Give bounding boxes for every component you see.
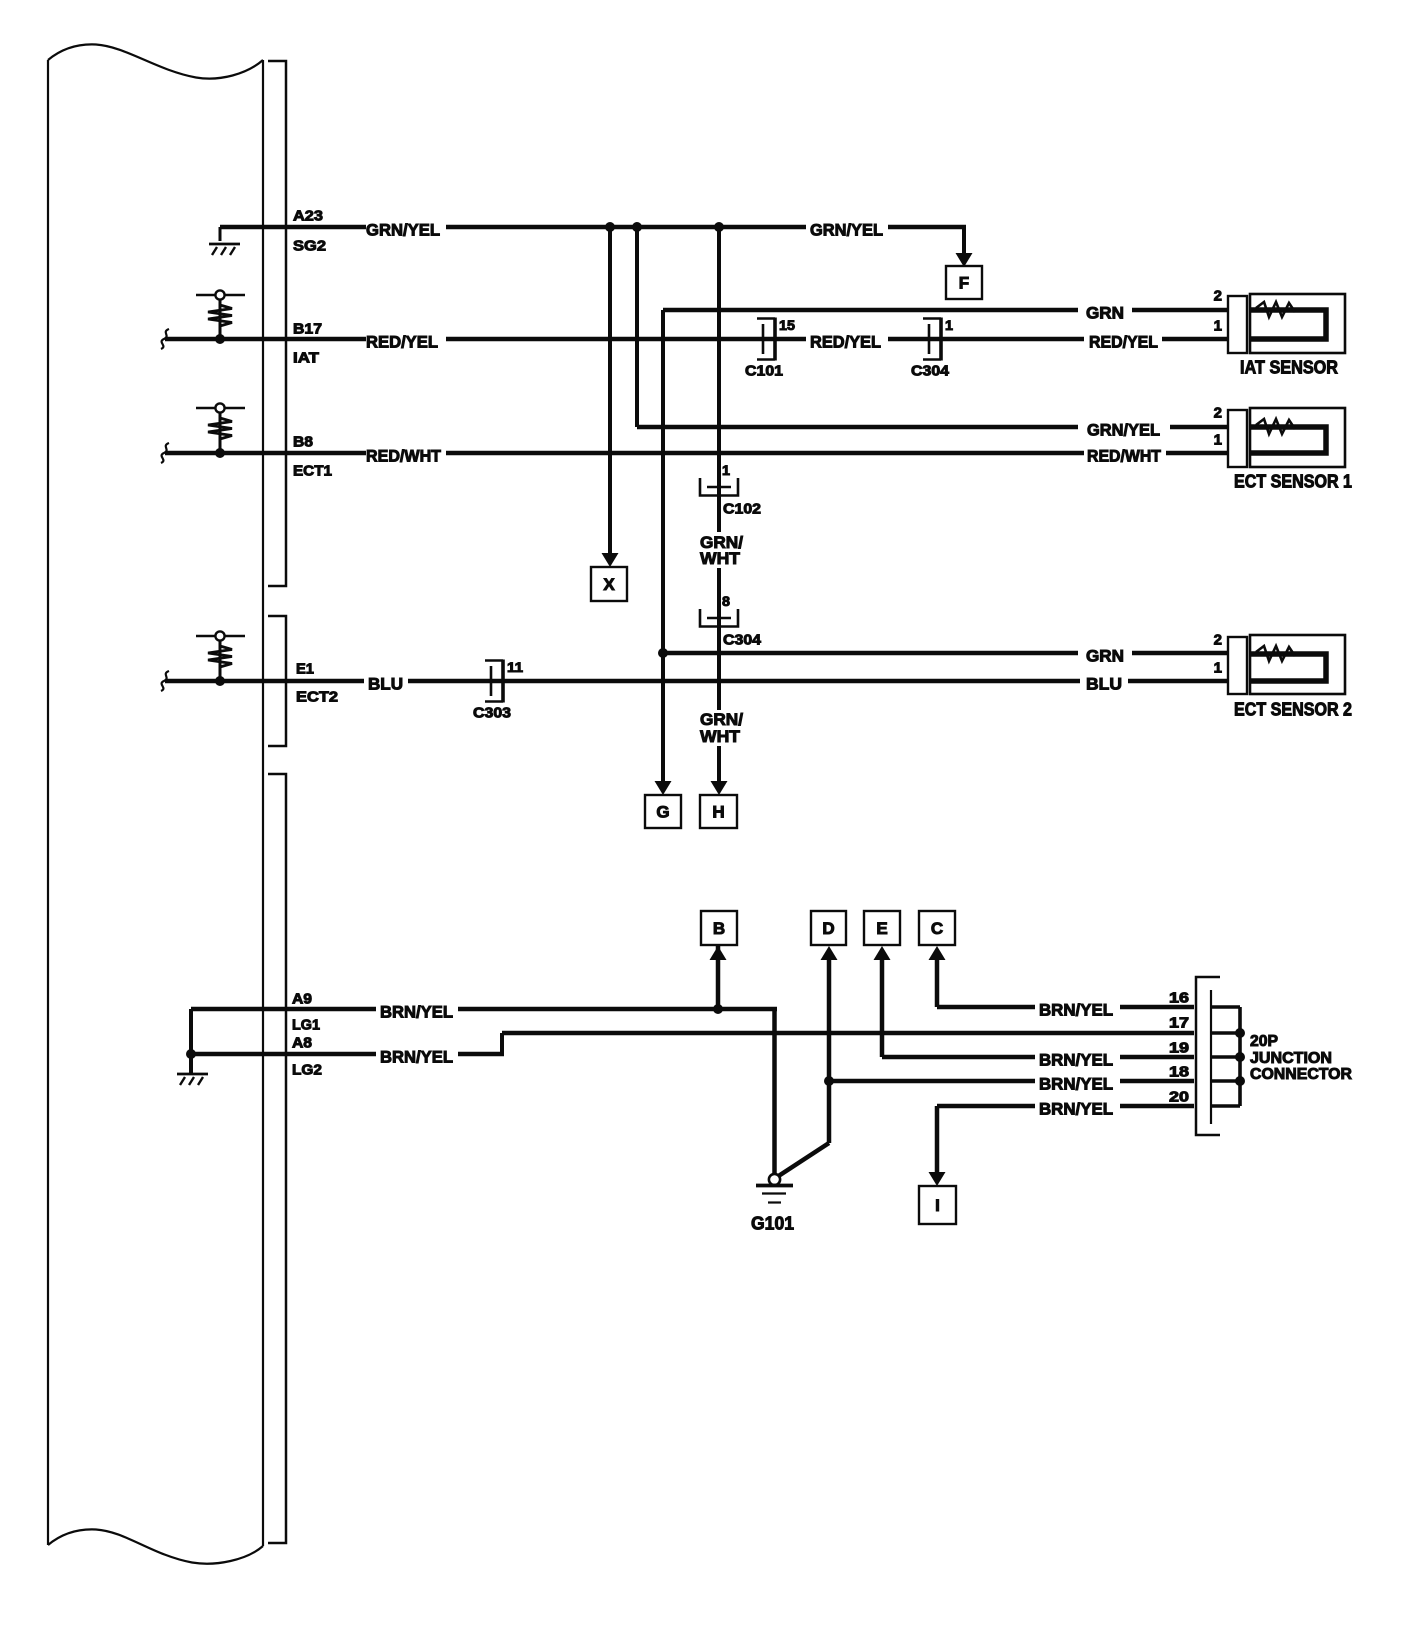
svg-text:GRN: GRN <box>1086 647 1124 666</box>
svg-text:BRN/YEL: BRN/YEL <box>1039 1100 1113 1119</box>
svg-text:20P: 20P <box>1250 1033 1278 1050</box>
svg-text:2: 2 <box>1214 287 1222 304</box>
svg-text:H: H <box>712 803 724 822</box>
svg-text:C304: C304 <box>723 631 762 648</box>
svg-text:C303: C303 <box>473 704 511 721</box>
svg-text:C102: C102 <box>723 500 761 517</box>
svg-text:C101: C101 <box>745 362 783 379</box>
svg-text:C304: C304 <box>911 362 950 379</box>
svg-text:17: 17 <box>1169 1014 1189 1031</box>
svg-text:A8: A8 <box>292 1034 312 1051</box>
svg-text:1: 1 <box>1214 431 1222 448</box>
svg-text:BLU: BLU <box>1086 675 1122 694</box>
svg-text:CONNECTOR: CONNECTOR <box>1250 1066 1352 1083</box>
svg-text:LG1: LG1 <box>292 1016 320 1033</box>
svg-text:16: 16 <box>1169 989 1189 1006</box>
svg-text:SG2: SG2 <box>293 237 326 254</box>
svg-text:15: 15 <box>779 317 795 333</box>
svg-text:RED/YEL: RED/YEL <box>810 333 881 352</box>
svg-text:G: G <box>656 803 669 822</box>
svg-text:F: F <box>959 274 969 293</box>
svg-text:1: 1 <box>722 462 730 478</box>
svg-text:BRN/YEL: BRN/YEL <box>1039 1051 1113 1070</box>
svg-text:BRN/YEL: BRN/YEL <box>380 1003 453 1022</box>
svg-text:ECT SENSOR 1: ECT SENSOR 1 <box>1234 472 1352 492</box>
svg-text:BLU: BLU <box>368 675 403 694</box>
svg-text:19: 19 <box>1169 1039 1189 1056</box>
svg-text:B: B <box>713 919 725 938</box>
svg-text:1: 1 <box>945 317 953 333</box>
svg-text:1: 1 <box>1214 659 1222 676</box>
svg-text:WHT: WHT <box>700 727 741 746</box>
svg-text:RED/YEL: RED/YEL <box>1089 333 1158 352</box>
svg-text:2: 2 <box>1214 631 1222 648</box>
svg-text:A9: A9 <box>292 990 312 1007</box>
svg-text:1: 1 <box>1214 317 1222 334</box>
svg-text:RED/YEL: RED/YEL <box>366 333 438 352</box>
svg-text:GRN/YEL: GRN/YEL <box>366 221 440 240</box>
svg-text:B8: B8 <box>293 433 313 450</box>
svg-text:LG2: LG2 <box>292 1061 322 1078</box>
svg-text:ECT2: ECT2 <box>296 688 338 705</box>
svg-text:18: 18 <box>1169 1063 1189 1080</box>
svg-text:GRN/YEL: GRN/YEL <box>810 221 883 240</box>
svg-text:11: 11 <box>507 659 523 675</box>
svg-text:JUNCTION: JUNCTION <box>1250 1050 1332 1067</box>
svg-text:ECT SENSOR 2: ECT SENSOR 2 <box>1234 700 1352 720</box>
svg-text:IAT SENSOR: IAT SENSOR <box>1240 358 1338 378</box>
svg-text:BRN/YEL: BRN/YEL <box>1039 1075 1113 1094</box>
svg-text:C: C <box>931 919 943 938</box>
svg-text:B17: B17 <box>293 320 322 337</box>
svg-text:RED/WHT: RED/WHT <box>366 447 442 466</box>
svg-text:X: X <box>603 575 615 594</box>
svg-text:I: I <box>935 1196 940 1215</box>
svg-text:BRN/YEL: BRN/YEL <box>1039 1001 1113 1020</box>
svg-text:D: D <box>822 919 834 938</box>
svg-text:8: 8 <box>722 593 730 609</box>
svg-text:BRN/YEL: BRN/YEL <box>380 1048 453 1067</box>
svg-text:A23: A23 <box>293 207 323 224</box>
svg-text:G101: G101 <box>751 1214 794 1234</box>
svg-text:E: E <box>876 919 887 938</box>
svg-text:ECT1: ECT1 <box>293 462 332 479</box>
svg-text:E1: E1 <box>296 660 314 677</box>
svg-text:GRN: GRN <box>1086 304 1124 323</box>
svg-text:RED/WHT: RED/WHT <box>1087 447 1162 466</box>
svg-text:2: 2 <box>1214 404 1222 421</box>
svg-text:WHT: WHT <box>700 549 741 568</box>
svg-text:IAT: IAT <box>293 349 319 366</box>
svg-text:20: 20 <box>1169 1088 1189 1105</box>
svg-text:GRN/YEL: GRN/YEL <box>1087 421 1160 440</box>
